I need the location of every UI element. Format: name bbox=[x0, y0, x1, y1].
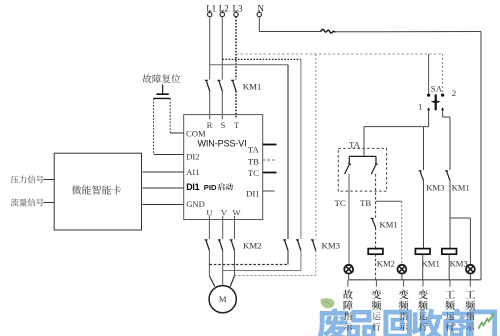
svg-text:M: M bbox=[219, 294, 227, 304]
svg-text:KM3: KM3 bbox=[322, 241, 341, 251]
svg-text:W: W bbox=[232, 208, 241, 218]
svg-text:TC: TC bbox=[335, 198, 346, 208]
svg-text:SA: SA bbox=[431, 84, 443, 94]
svg-text:TC: TC bbox=[248, 168, 259, 178]
svg-text:N: N bbox=[258, 3, 265, 13]
svg-text:L3: L3 bbox=[233, 3, 243, 13]
svg-text:V: V bbox=[221, 208, 228, 218]
svg-text:R: R bbox=[207, 120, 213, 130]
svg-text:KM3: KM3 bbox=[426, 182, 444, 192]
svg-text:KM2: KM2 bbox=[243, 241, 262, 251]
svg-text:TA: TA bbox=[248, 145, 260, 155]
svg-text:TB: TB bbox=[248, 157, 259, 167]
svg-text:KM1: KM1 bbox=[380, 220, 398, 230]
svg-text:DI1: DI1 bbox=[186, 182, 199, 192]
svg-text:GND: GND bbox=[186, 199, 205, 209]
svg-text:TB: TB bbox=[360, 198, 371, 208]
svg-text:DI2: DI2 bbox=[186, 151, 199, 161]
svg-text:KM1: KM1 bbox=[452, 182, 470, 192]
svg-text:2: 2 bbox=[452, 88, 456, 98]
svg-text:KM1: KM1 bbox=[243, 81, 262, 91]
svg-text:KM3: KM3 bbox=[450, 259, 468, 269]
svg-text:L1: L1 bbox=[206, 3, 216, 13]
svg-text:1: 1 bbox=[418, 102, 422, 112]
svg-text:TA: TA bbox=[349, 139, 361, 149]
svg-text:L2: L2 bbox=[219, 3, 229, 13]
svg-text:WIN-PSS-VI: WIN-PSS-VI bbox=[198, 138, 247, 148]
svg-text:PID: PID bbox=[204, 183, 217, 192]
svg-text:KM2: KM2 bbox=[377, 258, 395, 268]
svg-text:T: T bbox=[234, 120, 240, 130]
svg-text:DI1: DI1 bbox=[246, 189, 260, 199]
svg-text:S: S bbox=[221, 120, 226, 130]
svg-text:AI1: AI1 bbox=[186, 167, 199, 177]
svg-text:KM1: KM1 bbox=[422, 259, 440, 269]
svg-text:COM: COM bbox=[186, 129, 206, 139]
